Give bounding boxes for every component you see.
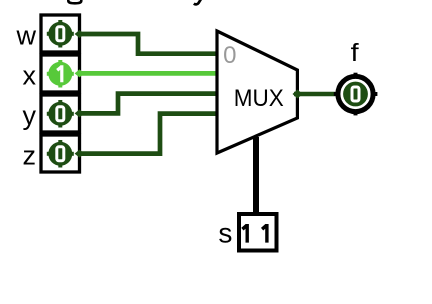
- pin box z: [41, 135, 80, 172]
- caption fragment g descender: [68, 0, 81, 3]
- LED z digit 0: [57, 147, 64, 161]
- LED y (value 0, dark green): [47, 100, 74, 128]
- LED x (value 1, bright green): [47, 60, 74, 88]
- wire y: box to MUX input 2: [80, 94, 219, 114]
- output pin f LED digit 0: [352, 87, 359, 101]
- node nub y pin: [75, 109, 85, 117]
- svg-text:y: y: [23, 101, 37, 131]
- svg-text:f: f: [351, 39, 359, 67]
- wire select bus (2-bit, black): [253, 137, 259, 212]
- LED z (value 0, dark green): [47, 140, 74, 168]
- node nub w pin: [75, 30, 85, 38]
- node nub x pin: [75, 69, 85, 77]
- MUX output nub: [293, 90, 303, 99]
- select value digit 1 (LSB): [262, 224, 267, 243]
- pin box y: [41, 95, 80, 132]
- output pin f ring: [334, 73, 378, 116]
- wire x: box to MUX input 1 (value 1, bright): [80, 71, 219, 76]
- pin box w: [41, 15, 80, 52]
- svg-text:0: 0: [223, 42, 236, 69]
- output pin f LED (value 0): [343, 82, 368, 107]
- input pin boxes column (w,x,y,z): [41, 15, 80, 172]
- LED y digit 0: [57, 107, 64, 121]
- svg-text:w: w: [16, 21, 37, 51]
- pin box x: [41, 55, 80, 92]
- select value digit 1 (MSB): [242, 224, 247, 243]
- node nub z pin: [75, 150, 85, 158]
- caption fragment y descender: [194, 0, 201, 4]
- LED w digit 0: [57, 27, 64, 41]
- LED x digit 1: [57, 65, 62, 82]
- svg-text:z: z: [23, 141, 37, 171]
- select pin box s: [239, 214, 277, 251]
- wire f: MUX output to output pin: [294, 92, 337, 97]
- wire w: box to MUX input 0: [80, 34, 219, 54]
- svg-text:MUX: MUX: [234, 85, 284, 112]
- LED w (value 0, dark green): [47, 20, 74, 48]
- MUX body U1: [217, 31, 297, 153]
- svg-text:x: x: [23, 61, 37, 91]
- wire z: box to MUX input 3: [80, 114, 219, 154]
- svg-text:s: s: [218, 218, 232, 249]
